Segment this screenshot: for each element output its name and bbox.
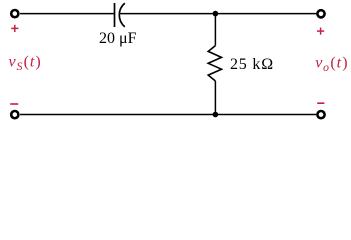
wire top-left (terminal to capacitor): [20, 13, 114, 15]
terminal top-left: [11, 10, 18, 17]
svg-text:vS(t): vS(t): [9, 54, 41, 74]
junction dot top node: [213, 11, 219, 17]
svg-text:20 μF: 20 μF: [99, 30, 137, 47]
wire top-right (capacitor to right terminal): [120, 13, 317, 15]
capacitor C left plate: [114, 3, 116, 27]
terminal bottom-left: [11, 111, 18, 118]
polarity minus sign left: [10, 103, 18, 105]
svg-text:25 kΩ: 25 kΩ: [230, 56, 274, 73]
junction dot bottom node: [213, 112, 219, 118]
terminal bottom-right: [317, 111, 324, 118]
resistor R top lead wire: [214, 14, 216, 46]
terminal top-right: [317, 10, 324, 17]
wire bottom (left terminal to right terminal): [20, 114, 316, 116]
capacitor C right curved plate: [119, 3, 125, 27]
polarity plus sign left: [11, 25, 18, 32]
resistor R bottom lead wire: [214, 81, 216, 115]
polarity plus sign right: [317, 28, 324, 35]
resistor R 25 kOhm zigzag body: [208, 46, 221, 81]
polarity minus sign right: [317, 102, 324, 104]
svg-text:vo(t): vo(t): [315, 54, 347, 74]
